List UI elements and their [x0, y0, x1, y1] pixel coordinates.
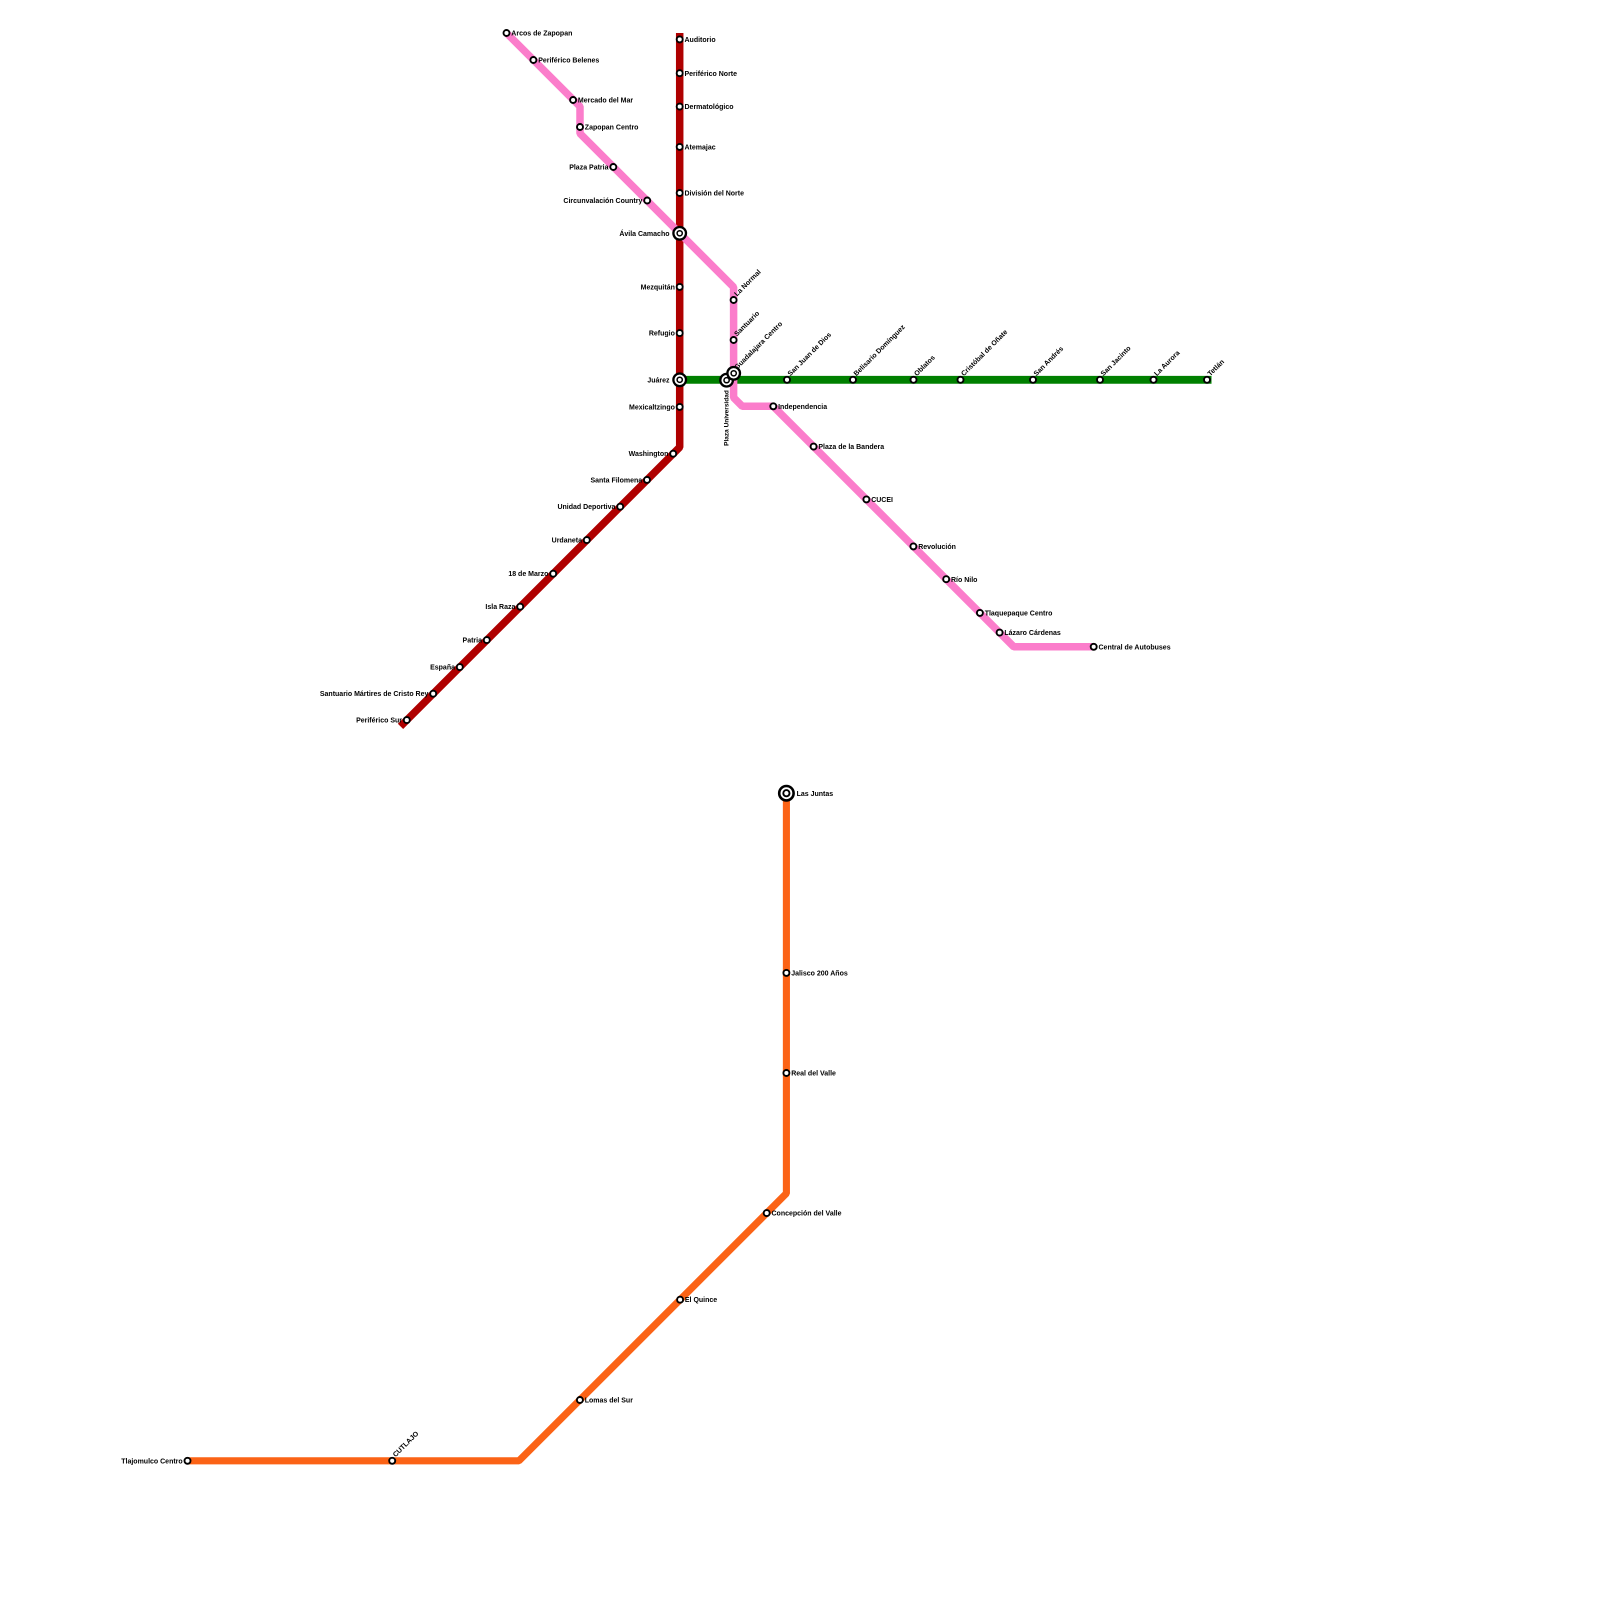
svg-text:Dermatológico: Dermatológico	[685, 104, 734, 111]
svg-text:Real del Valle: Real del Valle	[791, 1071, 836, 1078]
station Periférico Norte	[677, 70, 737, 78]
svg-text:Mezquitán: Mezquitán	[641, 284, 675, 291]
station Periférico Belenes	[530, 57, 599, 65]
station La Normal	[731, 269, 763, 303]
svg-text:Mercado del Mar: Mercado del Mar	[578, 98, 634, 105]
station Tlaquepaque Centro	[977, 610, 1052, 618]
svg-text:Zapopan Centro: Zapopan Centro	[585, 125, 639, 132]
station División del Norte	[677, 190, 744, 198]
line 1 (red) Auditorio–Periférico Sur	[401, 33, 680, 726]
svg-text:Washington: Washington	[629, 451, 669, 458]
svg-text:Plaza Patria: Plaza Patria	[569, 165, 608, 172]
station Santuario	[731, 310, 762, 343]
svg-text:Urdaneta: Urdaneta	[552, 538, 582, 545]
svg-text:Tlajomulco Centro: Tlajomulco Centro	[121, 1458, 182, 1465]
line 3 (pink) Arcos de Zapopan–Central de Autobuses	[507, 33, 1095, 647]
svg-text:Plaza de la Bandera: Plaza de la Bandera	[818, 444, 884, 451]
station Ávila Camacho	[619, 227, 686, 240]
svg-text:Juárez: Juárez	[647, 377, 670, 384]
station Juárez	[647, 374, 686, 387]
line 2 (green) Juárez–Tetlán	[680, 376, 1212, 384]
station Central de Autobuses	[1091, 644, 1171, 652]
svg-text:Mexicaltzingo: Mexicaltzingo	[629, 404, 675, 411]
station Santuario Mártires de Cristo Rey	[320, 691, 436, 699]
station Periférico Sur	[356, 717, 410, 725]
station Dermatológico	[677, 104, 734, 112]
station Urdaneta	[552, 537, 590, 545]
station Unidad Deportiva	[557, 504, 623, 512]
svg-text:Periférico Norte: Periférico Norte	[685, 71, 738, 78]
svg-text:CUCEI: CUCEI	[871, 497, 893, 504]
station Mezquitán	[641, 284, 683, 292]
station Patria	[463, 637, 490, 645]
svg-text:Lázaro Cárdenas: Lázaro Cárdenas	[1004, 630, 1061, 637]
station Plaza de la Bandera	[811, 444, 885, 452]
station Concepción del Valle	[764, 1210, 842, 1218]
svg-text:Patria: Patria	[463, 638, 483, 645]
svg-text:Santa Filomena: Santa Filomena	[590, 477, 642, 484]
station Plaza Universidad	[720, 374, 733, 446]
station Guadalajara Centro	[727, 321, 784, 380]
station Mercado del Mar	[570, 97, 633, 105]
station Jalisco 200 Años	[783, 970, 847, 978]
station Zapopan Centro	[577, 124, 638, 132]
station Cristóbal de Oñate	[958, 329, 1010, 383]
station Circunvalación Country	[563, 198, 650, 206]
svg-text:Santuario Mártires de Cristo R: Santuario Mártires de Cristo Rey	[320, 691, 429, 698]
station Independencia	[770, 403, 827, 411]
svg-text:Arcos de Zapopan: Arcos de Zapopan	[511, 31, 572, 38]
station España	[430, 664, 463, 672]
station Oblatos	[911, 354, 937, 382]
svg-text:El Quince: El Quince	[685, 1297, 717, 1304]
station San Andrés	[1030, 345, 1065, 382]
station Lomas del Sur	[577, 1397, 633, 1405]
svg-text:Refugio: Refugio	[649, 331, 675, 338]
station Santa Filomena	[590, 477, 650, 485]
svg-text:Lomas del Sur: Lomas del Sur	[585, 1398, 634, 1405]
svg-text:Jalisco 200 Años: Jalisco 200 Años	[791, 970, 848, 977]
station Lázaro Cárdenas	[997, 630, 1061, 638]
svg-text:Ávila Camacho: Ávila Camacho	[619, 229, 669, 238]
station San Juan de Dios	[784, 332, 833, 383]
svg-text:Central de Autobuses: Central de Autobuses	[1099, 644, 1171, 651]
station Auditorio	[677, 36, 716, 44]
station Plaza Patria	[569, 164, 616, 172]
station CUTLAJO	[389, 1430, 421, 1464]
svg-text:Circunvalación Country: Circunvalación Country	[563, 198, 642, 205]
svg-text:Auditorio: Auditorio	[685, 37, 716, 44]
svg-text:Plaza Universidad: Plaza Universidad	[724, 390, 731, 446]
svg-text:Río Nilo: Río Nilo	[951, 577, 977, 584]
station Río Nilo	[943, 576, 977, 584]
svg-text:División del Norte: División del Norte	[685, 191, 745, 198]
svg-text:Unidad Deportiva: Unidad Deportiva	[557, 504, 615, 511]
station Belisario Domínguez	[850, 324, 907, 383]
svg-text:Las Juntas: Las Juntas	[797, 791, 834, 798]
station Isla Raza	[485, 604, 523, 612]
svg-text:Tlaquepaque Centro: Tlaquepaque Centro	[985, 610, 1053, 617]
svg-text:Periférico Belenes: Periférico Belenes	[538, 58, 599, 65]
station Revolución	[910, 543, 956, 551]
svg-text:Periférico Sur: Periférico Sur	[356, 718, 402, 725]
station El Quince	[677, 1297, 717, 1305]
station Atemajac	[677, 144, 716, 152]
station La Aurora	[1151, 350, 1182, 383]
svg-text:18 de Marzo: 18 de Marzo	[508, 571, 548, 578]
svg-text:Isla Raza: Isla Raza	[485, 604, 515, 611]
station Arcos de Zapopan	[504, 30, 573, 38]
station Refugio	[649, 330, 683, 338]
station Tetlán	[1204, 359, 1226, 383]
station Las Juntas	[779, 786, 833, 800]
station CUCEI	[863, 496, 893, 504]
svg-text:Independencia: Independencia	[778, 404, 827, 411]
station Washington	[629, 451, 677, 459]
station 18 de Marzo	[508, 571, 556, 579]
station Mexicaltzingo	[629, 404, 683, 412]
svg-text:Atemajac: Atemajac	[685, 145, 716, 152]
svg-text:Concepción del Valle: Concepción del Valle	[772, 1211, 842, 1218]
line 4 (orange) Las Juntas–Tlajomulco Centro	[188, 793, 787, 1461]
svg-text:Revolución: Revolución	[918, 544, 956, 551]
svg-text:España: España	[430, 665, 455, 672]
station Tlajomulco Centro	[121, 1458, 190, 1466]
station Real del Valle	[783, 1070, 836, 1078]
station San Jacinto	[1097, 345, 1133, 383]
